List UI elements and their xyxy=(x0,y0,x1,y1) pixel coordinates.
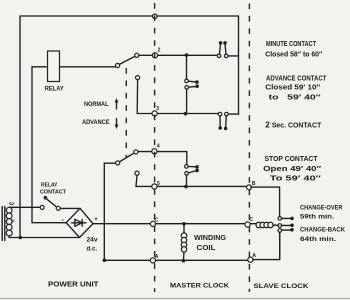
wire relay-contact to rectifier top xyxy=(60,207,80,209)
node A (right) xyxy=(248,257,253,262)
relay contact S2: pivot xyxy=(56,206,60,210)
contact change-over xyxy=(278,217,294,221)
node 2 xyxy=(152,53,157,58)
svg-text:Closed 58″ to 60″: Closed 58″ to 60″ xyxy=(265,50,323,59)
junction node2-line / advance-contact xyxy=(185,53,189,57)
slave change-over blade tip (C side) xyxy=(278,224,294,228)
contact 2-sec: right spring xyxy=(224,112,228,130)
svg-text:3: 3 xyxy=(156,106,159,112)
node A (left) xyxy=(150,258,155,263)
rectifier BR1 xyxy=(66,208,93,237)
switch S1b blade xyxy=(120,153,135,162)
switch S1a lower throw xyxy=(136,76,140,80)
wire vertical switch S1b to A line xyxy=(103,163,105,260)
svg-text:B: B xyxy=(252,181,256,187)
transformer T1 xyxy=(2,201,40,241)
relay RL1 box xyxy=(48,51,60,82)
svg-text:Closed 59′ 10″: Closed 59′ 10″ xyxy=(265,82,321,91)
svg-text:SLAVE CLOCK: SLAVE CLOCK xyxy=(254,283,309,290)
wire B to change-over contact xyxy=(251,187,280,216)
svg-text:CHANGE-BACK: CHANGE-BACK xyxy=(300,227,345,234)
relay contact S2: fixed terminal xyxy=(40,205,44,209)
svg-text:A: A xyxy=(252,253,256,259)
junction left-bus / bottom-bus xyxy=(19,236,23,240)
node B xyxy=(247,185,252,190)
node C xyxy=(150,221,155,226)
svg-text:59th min.: 59th min. xyxy=(300,213,334,220)
boundary dashed line master/slave xyxy=(248,4,250,293)
junction A-line left end xyxy=(103,258,107,262)
node on top bus at power/master boundary xyxy=(153,14,158,19)
svg-text:MASTER CLOCK: MASTER CLOCK xyxy=(170,282,229,289)
switch S1b upper throw xyxy=(134,150,138,154)
svg-text:WINDING: WINDING xyxy=(194,235,227,242)
switch S1a blade xyxy=(119,56,134,64)
contact change-back xyxy=(278,228,294,259)
wire node-3 line xyxy=(137,80,218,114)
node C (right) xyxy=(245,222,250,227)
svg-text:d.c.: d.c. xyxy=(87,246,98,253)
node 5 xyxy=(152,184,157,189)
svg-text:STOP CONTACT: STOP CONTACT xyxy=(265,156,319,163)
node 3 xyxy=(152,111,157,116)
svg-text:COIL: COIL xyxy=(197,245,217,252)
winding coil L1 xyxy=(181,224,187,261)
mechanical link (dashed) between switch poles xyxy=(125,68,127,158)
svg-text:RELAY: RELAY xyxy=(45,87,64,93)
wire node-4 line xyxy=(138,152,187,165)
svg-text:POWER UNIT: POWER UNIT xyxy=(48,280,99,289)
relay contact S2: blade xyxy=(46,199,56,207)
svg-text:NORMAL: NORMAL xyxy=(84,101,109,108)
svg-text:To 59′ 40″: To 59′ 40″ xyxy=(270,173,322,182)
wire lower-throw drop to B line xyxy=(136,175,137,186)
contact advance (between node2 and node3 lines) xyxy=(185,57,199,112)
svg-text:A: A xyxy=(155,254,159,260)
svg-text:MINUTE CONTACT: MINUTE CONTACT xyxy=(266,41,317,48)
svg-text:CHANGE-OVER: CHANGE-OVER xyxy=(300,205,343,212)
slave coil L2 xyxy=(256,222,278,228)
wire relay to rectifier minus xyxy=(32,67,66,223)
switch S1b pivot xyxy=(116,161,120,165)
node 4 xyxy=(152,149,157,154)
switch S1b lower throw xyxy=(135,171,139,175)
wire B line xyxy=(136,185,246,187)
boundary dashed line power/master xyxy=(154,3,156,292)
svg-text:64th min.: 64th min. xyxy=(300,236,336,243)
svg-text:2 Sec. CONTACT: 2 Sec. CONTACT xyxy=(265,119,322,129)
contact 2-sec: left spring xyxy=(218,112,222,130)
wire top bus xyxy=(20,15,239,17)
wire left bus xyxy=(19,16,21,238)
label ADVANCE + down arrow xyxy=(82,119,118,130)
contact minute: left spring xyxy=(217,41,222,57)
junction A-line / winding coil xyxy=(182,259,186,263)
wire right bus (master loop) xyxy=(238,16,240,114)
junction C-line / winding coil xyxy=(182,222,186,226)
switch S1a pivot xyxy=(116,63,120,67)
relay RL1 coil wire xyxy=(32,66,116,68)
svg-text:24v: 24v xyxy=(87,236,98,243)
wire node-2 line xyxy=(139,54,217,56)
junction node3-line / advance-contact xyxy=(184,112,188,116)
wire bottom bus to rectifier xyxy=(9,237,80,239)
photo bottom edge xyxy=(0,298,350,300)
svg-text:Open 49′ 40″: Open 49′ 40″ xyxy=(263,164,322,173)
svg-text:ADVANCE: ADVANCE xyxy=(82,119,110,126)
svg-text:4: 4 xyxy=(157,144,160,150)
svg-text:2: 2 xyxy=(158,48,161,54)
svg-text:ω: ω xyxy=(9,201,14,207)
switch S1a upper throw xyxy=(135,53,139,57)
switch S1b wire from pivot to A-line vertical xyxy=(104,162,115,164)
wire C line xyxy=(93,223,256,225)
contact minute: right spring xyxy=(223,41,228,58)
svg-text:+: + xyxy=(94,217,98,223)
junction B-line / stop-contact xyxy=(184,185,188,189)
svg-text:to 59′ 40″: to 59′ 40″ xyxy=(269,92,322,101)
wire A to change-back contact xyxy=(253,232,280,259)
label NORMAL + up arrow xyxy=(84,98,118,109)
svg-text:RELAY: RELAY xyxy=(41,182,58,188)
wire A line xyxy=(104,259,248,261)
svg-text:CONTACT: CONTACT xyxy=(40,189,66,195)
contact stop xyxy=(185,165,199,185)
svg-text:5: 5 xyxy=(157,181,160,187)
